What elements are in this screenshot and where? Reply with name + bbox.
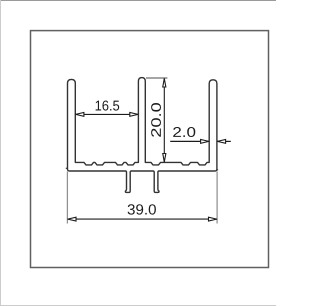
extension line for 20.0 (from middle wall top) <box>146 77 167 79</box>
drawing frame <box>31 31 269 268</box>
arrow right of 16.5 <box>130 113 138 117</box>
arrow pointing right at wall left face (2.0) <box>201 140 209 144</box>
base corner nub right <box>216 169 218 171</box>
leader line left of 2.0 <box>170 140 209 142</box>
profile outline: aluminum extrusion cross-section <box>68 78 217 193</box>
arrow pointing left at wall right face (2.0) <box>217 140 225 144</box>
label 39.0 <box>128 204 156 214</box>
outer image border left <box>0 0 2 306</box>
dim line 39.0 <box>67 218 217 220</box>
arrow left of 16.5 <box>76 113 84 117</box>
profile body <box>68 78 217 193</box>
outer image border bottom <box>0 305 276 306</box>
base corner nub left <box>66 167 68 169</box>
arrow bottom of 20.0 <box>163 154 166 163</box>
label 2.0 <box>173 127 195 137</box>
label 20.0 (rotated) <box>151 103 161 137</box>
arrow left of 39.0 <box>68 217 76 221</box>
dim line 20.0 <box>163 78 165 162</box>
label 16.5 <box>96 100 120 110</box>
outer image border top <box>0 0 276 2</box>
dimension 16.5 (between left wall inner face and middle wall) <box>75 113 138 115</box>
extension line right for 39.0 <box>216 172 218 224</box>
extension line left for 39.0 <box>66 172 68 224</box>
arrow right of 39.0 <box>209 217 217 221</box>
arrow top of 20.0 <box>163 79 166 88</box>
leader line right of 2.0 <box>217 140 231 142</box>
dim line 16.5 <box>75 113 138 115</box>
